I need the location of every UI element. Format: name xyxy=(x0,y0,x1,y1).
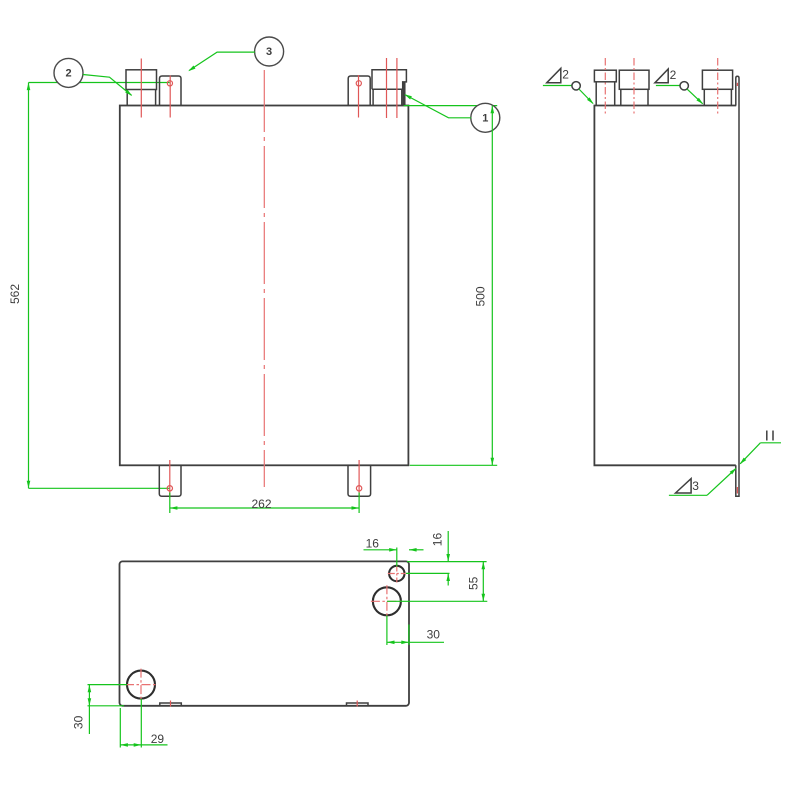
svg-text:16: 16 xyxy=(366,537,380,551)
dim 30 (left) line xyxy=(88,685,90,734)
side thin plate xyxy=(736,76,739,496)
balloon 2 xyxy=(54,58,83,87)
dim 16 vertical (top-right) xyxy=(447,531,449,562)
svg-text:3: 3 xyxy=(266,46,272,58)
big hole right crosshair xyxy=(371,585,403,617)
svg-text:16: 16 xyxy=(431,533,445,547)
big hole right xyxy=(373,587,401,615)
label 11 xyxy=(767,431,773,441)
dimension 500 extension lines xyxy=(404,105,498,107)
side tab SB centerline xyxy=(633,58,635,116)
tab T2 centerline xyxy=(169,76,171,118)
small hole top-right xyxy=(389,566,404,581)
svg-text:3: 3 xyxy=(692,479,699,493)
bottom tab BL centerline xyxy=(169,460,171,498)
dim 16 horizontal (top) xyxy=(396,548,398,567)
bottom tab BL xyxy=(159,465,181,496)
dimension 262 extension lines xyxy=(169,493,171,514)
dim 30 (right) xyxy=(386,616,388,646)
bottom tab BR xyxy=(348,465,371,496)
tab T1 centerline xyxy=(140,59,142,118)
side body outline xyxy=(594,106,736,466)
side tab SA cap xyxy=(594,70,616,82)
leader 11 to corner xyxy=(740,443,760,464)
plate red tick bottom xyxy=(736,487,738,494)
leader to body corner xyxy=(579,89,593,104)
weld seam centerlines xyxy=(386,58,388,118)
dimension 562 extension line bottom xyxy=(29,487,170,489)
dim 55 xyxy=(387,600,487,602)
svg-text:1: 1 xyxy=(482,112,488,124)
tab T4 stem xyxy=(373,89,402,105)
svg-text:562: 562 xyxy=(8,284,22,304)
tab T2 hole xyxy=(167,81,172,86)
dim 30 (left) extension lines xyxy=(88,684,128,686)
svg-text:30: 30 xyxy=(427,628,441,642)
big hole left xyxy=(127,671,155,699)
tag circle 2 xyxy=(680,82,688,90)
dim 29 extension lines xyxy=(119,708,121,748)
rect top edge extension xyxy=(407,561,487,563)
svg-text:2: 2 xyxy=(670,68,677,82)
leader to plate bottom xyxy=(707,469,736,496)
leader to tab SC corner xyxy=(687,89,703,104)
dimension 500 line xyxy=(491,106,493,466)
tab T4 cap with notch (top-right) xyxy=(372,70,406,90)
bottom tab BR hole xyxy=(356,486,361,491)
bottom view body xyxy=(120,561,410,705)
svg-text:29: 29 xyxy=(151,732,165,746)
dimension 562 extension line top xyxy=(29,82,170,84)
tab T3 centerline xyxy=(358,75,360,118)
balloon 1 leader xyxy=(405,95,471,118)
balloon 3 leader xyxy=(189,52,255,70)
notch left xyxy=(160,703,182,706)
tag circle 1 xyxy=(572,82,580,90)
big hole left crosshair xyxy=(125,669,157,701)
tab T1 cap (top-left) xyxy=(126,70,157,90)
balloon 3 xyxy=(255,37,284,66)
side tab SC centerline xyxy=(717,58,719,116)
thin side plate edge-on (balloon 1 part) xyxy=(403,82,405,105)
bottom tab BL hole xyxy=(167,486,172,491)
notch right xyxy=(347,703,369,706)
svg-text:262: 262 xyxy=(251,497,271,511)
dimension 262 line xyxy=(170,507,359,509)
tab T2 (rounded, with hole) xyxy=(160,76,182,106)
balloon 2 leader xyxy=(83,75,132,96)
side tab SB stem xyxy=(621,89,648,105)
svg-text:2: 2 xyxy=(562,67,569,81)
balloon 1 xyxy=(471,103,500,132)
tab T3 hole xyxy=(356,81,361,86)
dimension 562 line xyxy=(28,83,30,489)
surface finish symbol 1 (triangle 2) xyxy=(547,68,561,82)
svg-text:500: 500 xyxy=(474,286,488,306)
tab T1 stem xyxy=(127,90,155,106)
side tab SB cap xyxy=(619,70,649,89)
side tab SC stem xyxy=(704,89,731,105)
small hole crosshair xyxy=(388,565,406,583)
side tab SA centerline xyxy=(604,58,606,116)
surface finish symbol 2 (triangle 2) xyxy=(655,69,668,83)
side tab SC cap xyxy=(702,70,732,89)
tab T3 (rounded, with hole) xyxy=(348,76,370,106)
svg-text:55: 55 xyxy=(466,576,480,590)
front main centerline xyxy=(263,70,265,487)
side tab SA stem xyxy=(596,82,615,106)
front body plate xyxy=(120,106,409,466)
dim 29 line xyxy=(120,744,167,746)
bottom tab BR centerline xyxy=(358,460,360,498)
plate red tick top xyxy=(736,83,738,86)
surface finish symbol 3 (triangle 3 bottom) xyxy=(676,479,692,493)
svg-text:2: 2 xyxy=(65,68,71,80)
notch right red tick xyxy=(356,701,358,707)
svg-text:30: 30 xyxy=(72,715,86,729)
notch left red tick xyxy=(170,701,172,707)
